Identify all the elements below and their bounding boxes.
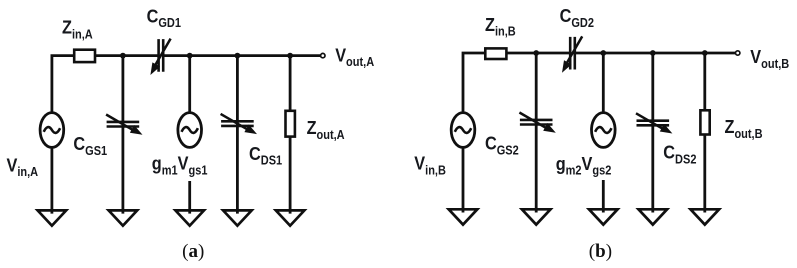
junction node at gm1 top bbox=[187, 53, 193, 59]
wire: C_GS2 branch bbox=[535, 53, 538, 213]
svg-text:(a): (a) bbox=[182, 241, 204, 262]
ground: Z_out,B branch bbox=[691, 209, 720, 224]
ground: Z_out,A branch bbox=[276, 210, 305, 225]
ground: C_GS2 branch bbox=[522, 209, 551, 224]
capacitor C_GS1 bbox=[106, 115, 142, 135]
terminal node V_out,B bbox=[736, 51, 740, 55]
ground: V_in,B branch bbox=[449, 209, 478, 224]
junction node at C_DS2 top bbox=[650, 50, 656, 56]
ground: gm2 branch bbox=[589, 209, 618, 224]
source V_in,B bbox=[451, 113, 475, 148]
resistor Z_out,B bbox=[700, 110, 709, 134]
junction node at Z_out,A top bbox=[287, 53, 293, 59]
wire: Z_out,B branch bbox=[703, 53, 706, 213]
source g_m1 V_gs1 bbox=[178, 113, 202, 148]
wire: C_DS2 branch bbox=[651, 53, 654, 213]
capacitor C_DS2 bbox=[636, 113, 672, 133]
wire: C_GS1 branch bbox=[122, 56, 125, 214]
ground: C_DS2 branch bbox=[639, 209, 668, 224]
capacitor C_GD2 bbox=[562, 36, 582, 72]
wire: gm1 branch top bbox=[188, 56, 191, 113]
source g_m2 V_gs2 bbox=[592, 113, 616, 148]
wire: top rail Zin,B to C_GD2 bbox=[507, 52, 570, 55]
wire: top rail C_GD2 to output terminal bbox=[575, 52, 736, 55]
wire: gm1 branch bottom bbox=[188, 181, 191, 214]
junction node at Z_out,B top bbox=[702, 50, 708, 56]
wire: V_in,B source bottom bbox=[462, 147, 465, 212]
wire: Vin,B branch up to top rail corner bbox=[463, 53, 486, 113]
wire: top rail Zin,A to C_GD1 bbox=[96, 54, 159, 57]
junction node at gm2 top bbox=[600, 50, 606, 56]
ground: C_DS1 branch bbox=[223, 210, 252, 225]
junction node at C_DS1 top bbox=[235, 53, 241, 59]
wire: Vin,A branch up to top rail corner bbox=[52, 56, 75, 113]
svg-text:(b): (b) bbox=[589, 241, 612, 262]
capacitor C_DS1 bbox=[221, 114, 257, 134]
ground: C_GS1 branch bbox=[109, 210, 138, 225]
source V_in,A bbox=[40, 113, 64, 148]
resistor Z_in,B bbox=[485, 48, 506, 59]
wire: V_in,A source bottom bbox=[51, 147, 54, 213]
resistor Z_out,A bbox=[286, 111, 295, 137]
junction node at C_GS1 top bbox=[120, 53, 126, 59]
wire: Z_out,A branch bbox=[289, 56, 292, 214]
ground: V_in,A branch bbox=[38, 210, 67, 225]
capacitor C_GD1 bbox=[150, 39, 170, 75]
ground: gm1 branch bbox=[175, 210, 204, 225]
terminal node V_out,A bbox=[321, 53, 325, 57]
junction node at C_GS2 top bbox=[533, 50, 539, 56]
wire: gm2 branch bottom bbox=[602, 180, 605, 213]
resistor Z_in,A bbox=[74, 50, 95, 62]
wire: C_DS1 branch bbox=[236, 56, 239, 214]
wire: gm2 branch top bbox=[602, 53, 605, 113]
wire: top rail C_GD1 to output terminal bbox=[164, 54, 321, 57]
capacitor C_GS2 bbox=[519, 113, 555, 133]
